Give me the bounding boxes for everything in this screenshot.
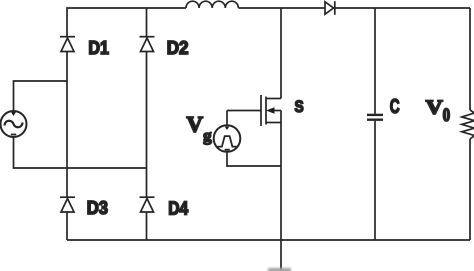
- diode D1: [60, 37, 75, 52]
- wire: [469, 139, 471, 240]
- mosfet S: [261, 95, 281, 126]
- wire: [66, 212, 68, 240]
- wire: [146, 212, 148, 240]
- wire: [227, 152, 281, 166]
- wire: [227, 110, 261, 112]
- ground: [268, 268, 291, 271]
- wire: [66, 52, 68, 198]
- inductor L: [186, 1, 238, 8]
- label V0: [426, 96, 450, 126]
- wire: [280, 8, 282, 99]
- svg-text:C: C: [390, 95, 400, 118]
- diode D4: [140, 197, 155, 212]
- wire: [67, 8, 186, 37]
- wire: [67, 239, 470, 241]
- label Vg: [187, 111, 213, 145]
- svg-text:D4: D4: [168, 199, 188, 219]
- diode D2: [140, 37, 155, 52]
- svg-text:g: g: [203, 126, 212, 145]
- gate driver Vg: [214, 125, 241, 152]
- wire: [14, 137, 147, 168]
- capacitor C: [367, 8, 383, 240]
- wire: [280, 111, 282, 241]
- wire: [146, 52, 148, 198]
- svg-text:D2: D2: [167, 38, 189, 58]
- svg-text:V: V: [187, 111, 204, 136]
- diode D3: [60, 197, 75, 212]
- wire: [335, 7, 470, 9]
- wire: [146, 8, 148, 37]
- svg-text:D1: D1: [88, 38, 109, 58]
- resistor R load: [462, 110, 474, 139]
- wire: [14, 81, 68, 111]
- wire: [238, 7, 325, 9]
- ac source V: [1, 111, 27, 137]
- boost diode: [325, 1, 335, 15]
- svg-text:D3: D3: [87, 198, 108, 218]
- svg-text:S: S: [295, 97, 304, 116]
- svg-text:0: 0: [443, 105, 451, 126]
- svg-text:V: V: [426, 96, 444, 118]
- wire: [469, 8, 471, 110]
- wire: [280, 240, 282, 271]
- wire: [226, 111, 228, 126]
